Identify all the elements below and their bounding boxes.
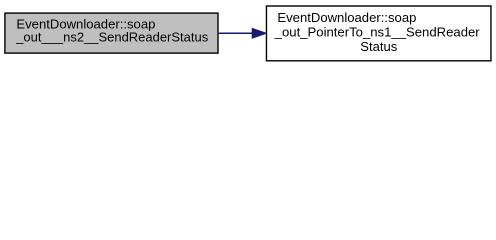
edge wire: call-graph edge shaft (midnightblue) bbox=[219, 32, 253, 34]
svg-text:_out___ns2__SendReaderStatus: _out___ns2__SendReaderStatus bbox=[15, 30, 208, 45]
node box: EventDownloader::soap_out_PointerTo_ns1__SendReaderStatus (callee, white) bbox=[266, 6, 491, 61]
node box: EventDownloader::soap_out___ns2__SendReaderStatus (caller, grey filled) bbox=[5, 13, 218, 53]
svg-text:Status: Status bbox=[360, 39, 397, 54]
edge arrowhead pointing at callee node bbox=[252, 28, 266, 38]
svg-text:_out_PointerTo_ns1__SendReader: _out_PointerTo_ns1__SendReader bbox=[274, 25, 481, 40]
svg-text:EventDownloader::soap: EventDownloader::soap bbox=[277, 10, 416, 25]
